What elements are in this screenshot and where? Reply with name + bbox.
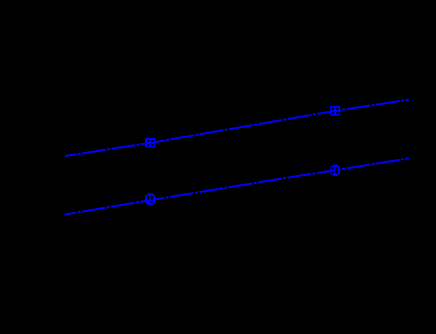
marker circle-plus C1 [145,193,156,205]
series 2 line (bottom, dash-dot) [65,158,409,214]
marker square-plus S1 [145,138,155,148]
series 1 line (top, dash-dot) [65,100,409,156]
marker square-plus S2 [330,106,340,116]
marker circle-plus C2 [330,164,340,176]
